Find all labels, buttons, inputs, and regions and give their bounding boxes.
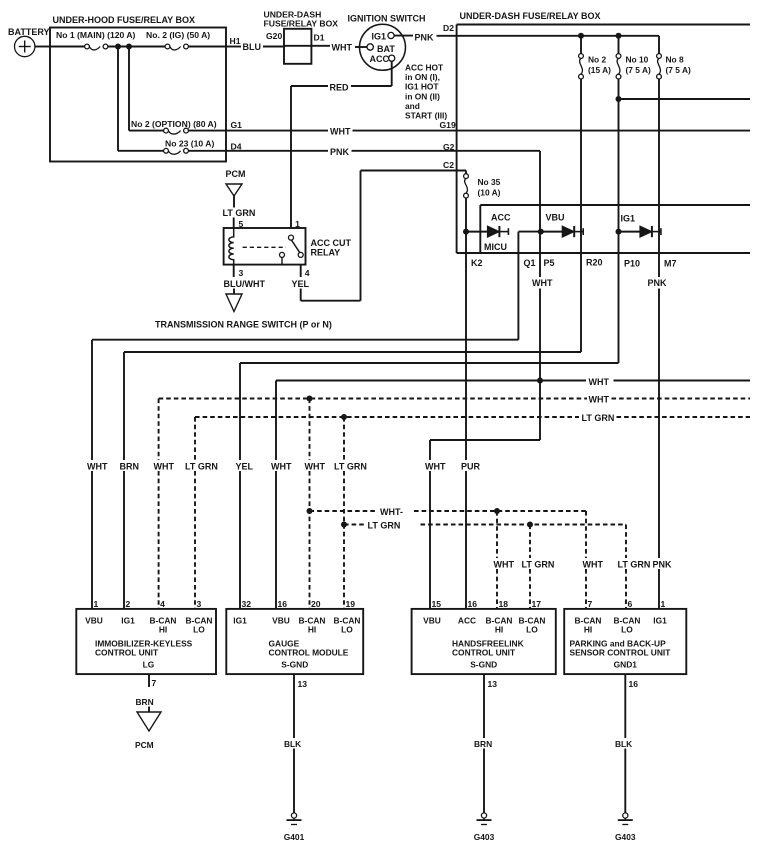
svg-text:BRN: BRN — [136, 697, 154, 707]
G19 terminal label — [440, 120, 456, 130]
relay pin 1 label — [295, 219, 300, 229]
wire park pin16 — [624, 674, 626, 813]
svg-text:CONTROL MODULE: CONTROL MODULE — [269, 648, 349, 658]
BLK label park — [615, 739, 632, 749]
fuse No 8 7.5A — [657, 54, 691, 79]
PCM label bottom — [135, 740, 154, 750]
relay pin 3 label — [239, 268, 244, 278]
svg-text:WHT: WHT — [532, 278, 553, 288]
node dot fuse No10 tap — [616, 33, 622, 39]
transmission range switch triangle — [226, 294, 242, 312]
node dot lower WHT at hfl pin18 — [494, 508, 500, 514]
wire col to immo pin2 — [123, 352, 125, 609]
dashed WHT bus lower — [310, 510, 587, 512]
svg-text:BLU/WHT: BLU/WHT — [224, 279, 266, 289]
relay contact fixed — [280, 252, 285, 264]
fuse No 23 10A — [118, 139, 214, 155]
wire BRN to PCM triangle — [148, 707, 150, 713]
svg-text:IG1: IG1 — [653, 616, 667, 626]
wire col to gauge pin16 — [275, 381, 277, 609]
WHT- label lower bus — [380, 507, 403, 517]
svg-text:4: 4 — [305, 268, 310, 278]
WHT label hfl pin15 — [425, 462, 446, 472]
hfl unit name — [452, 639, 524, 658]
dashed LTGRN bus upper — [195, 416, 750, 418]
relay pin 5 label — [239, 219, 244, 229]
wire ACC left to RED — [351, 85, 392, 87]
svg-text:PUR: PUR — [461, 462, 481, 472]
node junction dot B — [126, 44, 132, 50]
relay coil — [229, 228, 234, 265]
svg-text:IG1 HOT: IG1 HOT — [405, 82, 439, 92]
svg-text:WHT: WHT — [330, 127, 351, 137]
pin 15 number — [432, 599, 442, 609]
svg-text:G20: G20 — [266, 31, 282, 41]
relay contact pin4 — [298, 252, 303, 257]
wire gauge pin13 — [293, 674, 295, 813]
svg-text:BRN: BRN — [120, 462, 140, 472]
svg-text:16: 16 — [629, 679, 639, 689]
svg-text:IG1: IG1 — [621, 214, 636, 224]
node dot No10 branch — [616, 96, 622, 102]
svg-text:PNK: PNK — [330, 147, 350, 157]
wire K2 column — [465, 232, 467, 609]
svg-text:HI: HI — [308, 625, 316, 635]
WHT label gauge pin16 — [271, 462, 292, 472]
wire WHT to BAT terminal — [355, 46, 367, 48]
svg-text:P5: P5 — [544, 258, 555, 268]
wire fuse2 to H1 — [188, 46, 226, 48]
svg-text:ACC CUT: ACC CUT — [311, 238, 352, 248]
node dot dashed WHT at gauge pin20 — [307, 396, 313, 402]
M7 label — [664, 258, 677, 268]
wire D2 bus — [457, 35, 659, 37]
wire No10 branch right — [619, 98, 751, 100]
svg-text:1: 1 — [661, 599, 666, 609]
BRN label immo — [136, 697, 154, 707]
P5 label — [544, 258, 555, 268]
svg-text:No 35: No 35 — [478, 177, 501, 187]
ground G401 — [284, 813, 305, 842]
WHT wire label G19 row — [330, 127, 351, 137]
ignition ACC terminal — [370, 54, 395, 64]
dashed LTGRN bus lower — [344, 524, 626, 526]
wire R20 bus left — [124, 351, 581, 353]
WHT label immo pin4 — [154, 462, 175, 472]
svg-text:6: 6 — [628, 599, 633, 609]
pin 3 number — [197, 599, 202, 609]
svg-text:LT GRN: LT GRN — [582, 413, 615, 423]
wire drop to fuse No8 — [658, 36, 660, 54]
wire WHT to G19 under-dash — [353, 130, 751, 132]
relay switch arm — [291, 240, 300, 253]
svg-text:BLU: BLU — [243, 42, 262, 52]
svg-text:WHT: WHT — [154, 462, 175, 472]
svg-text:YEL: YEL — [292, 279, 310, 289]
dashed WHT bus upper — [159, 398, 750, 400]
wire between fuses — [108, 46, 165, 48]
svg-text:(7 5 A): (7 5 A) — [666, 65, 691, 75]
svg-text:RELAY: RELAY — [311, 248, 341, 258]
svg-text:No 8: No 8 — [666, 55, 684, 65]
svg-text:G19: G19 — [440, 120, 456, 130]
dashed col to immo pin4 — [158, 399, 160, 609]
svg-text:No 1 (MAIN) (120 A): No 1 (MAIN) (120 A) — [56, 30, 136, 40]
PNK label M7 col — [648, 278, 668, 288]
wire option fuse to G1 — [188, 130, 226, 132]
diode ACC — [463, 226, 508, 237]
Q1 label — [524, 258, 536, 268]
ACC diode label — [491, 212, 511, 222]
svg-text:VBU: VBU — [85, 616, 103, 626]
svg-text:M7: M7 — [664, 258, 677, 268]
relay dashed link — [243, 246, 286, 248]
svg-text:ACC: ACC — [370, 54, 390, 64]
LT GRN wire label relay — [223, 208, 256, 218]
immo pin names — [85, 616, 212, 635]
park pin names — [575, 616, 668, 635]
diode VBU — [538, 226, 583, 237]
wire col to immo pin1 — [91, 340, 93, 609]
D4 terminal label — [231, 142, 242, 152]
wire relay pin4 down — [300, 265, 302, 277]
svg-text:HI: HI — [159, 625, 167, 635]
svg-text:LO: LO — [526, 625, 538, 635]
svg-text:(10 A): (10 A) — [478, 188, 501, 198]
LT GRN label park pin6 — [618, 560, 651, 570]
svg-text:IG1: IG1 — [372, 32, 387, 42]
svg-text:Q1: Q1 — [524, 258, 536, 268]
BLU/WHT wire label — [224, 279, 266, 289]
node dot dashed LTGRN at gauge pin19 — [341, 414, 347, 420]
svg-text:LT GRN: LT GRN — [334, 462, 367, 472]
G1 terminal label — [231, 120, 243, 130]
P10 label — [624, 258, 640, 268]
svg-text:WHT: WHT — [583, 560, 604, 570]
svg-text:G401: G401 — [284, 832, 305, 842]
svg-text:LG: LG — [143, 660, 155, 670]
svg-text:WHT: WHT — [494, 560, 515, 570]
acc-hot note — [405, 63, 447, 121]
pin 16 number — [278, 599, 288, 609]
svg-text:18: 18 — [499, 599, 509, 609]
svg-text:19: 19 — [346, 599, 356, 609]
svg-text:HI: HI — [584, 625, 592, 635]
svg-text:3: 3 — [239, 268, 244, 278]
pin 13 number — [298, 679, 308, 689]
svg-text:TRANSMISSION RANGE SWITCH (P o: TRANSMISSION RANGE SWITCH (P or N) — [155, 320, 332, 330]
wire G1 to WHT label — [226, 130, 328, 132]
node dot lower LTGRN at hfl pin17 — [527, 522, 533, 528]
svg-text:16: 16 — [278, 599, 288, 609]
svg-text:S-GND: S-GND — [470, 660, 497, 670]
D1 terminal label — [314, 33, 325, 43]
under-dash fuse/relay box (open right) — [457, 25, 750, 254]
svg-text:PCM: PCM — [226, 169, 246, 179]
pin 13b number — [488, 679, 498, 689]
svg-text:WHT: WHT — [305, 462, 326, 472]
pin 1b number — [661, 599, 666, 609]
svg-text:16: 16 — [468, 599, 478, 609]
svg-text:WHT: WHT — [425, 462, 446, 472]
wire YEL path to C2 — [301, 171, 466, 301]
pin 17 number — [532, 599, 542, 609]
LT GRN label dashed bus — [582, 413, 615, 423]
pin 18 number — [499, 599, 509, 609]
PCM triangle — [226, 184, 242, 196]
svg-text:ACC: ACC — [491, 212, 511, 222]
svg-text:ACC HOT: ACC HOT — [405, 63, 444, 73]
hfl pin names — [423, 616, 545, 635]
WHT label park pin7 — [583, 560, 604, 570]
WHT label solid bus — [589, 377, 610, 387]
LT GRN label lower bus — [368, 521, 401, 531]
svg-text:G2: G2 — [443, 142, 455, 152]
wire drop from dot B — [128, 47, 130, 131]
svg-text:in ON (II): in ON (II) — [405, 91, 440, 101]
BRN label hfl — [474, 739, 492, 749]
parking back-up sensor control unit box — [564, 609, 686, 674]
pin 7b number — [152, 678, 157, 688]
wire P5 corner to hfl pin15 — [430, 440, 540, 609]
svg-text:32: 32 — [242, 599, 252, 609]
svg-text:VBU: VBU — [423, 616, 441, 626]
battery — [8, 27, 50, 57]
wire BLU/WHT to triangle — [233, 289, 235, 295]
svg-text:LT GRN: LT GRN — [522, 560, 555, 570]
ignition BAT terminal — [367, 44, 395, 54]
park unit name — [570, 639, 672, 658]
svg-text:PNK: PNK — [415, 32, 435, 42]
node dot lower LTGRN start — [341, 522, 347, 528]
svg-text:VBU: VBU — [272, 616, 290, 626]
svg-text:RED: RED — [330, 83, 350, 93]
under-dash small box title — [264, 10, 339, 29]
svg-text:MICU: MICU — [484, 242, 507, 252]
under-dash small box — [284, 29, 311, 64]
svg-text:WHT: WHT — [589, 395, 610, 405]
MICU box — [480, 205, 750, 253]
wire RED to corner — [291, 85, 328, 87]
pin 16b number — [468, 599, 478, 609]
WHT label immo pin1 — [87, 462, 108, 472]
pin 6 number — [628, 599, 633, 609]
svg-text:IGNITION SWITCH: IGNITION SWITCH — [348, 14, 426, 24]
wire IG1 to PNK label — [394, 35, 413, 37]
svg-text:WHT: WHT — [271, 462, 292, 472]
wire Q1 column — [517, 232, 519, 340]
WHT label gauge pin20 — [305, 462, 326, 472]
svg-text:15: 15 — [432, 599, 442, 609]
wire PNK to G2 corner — [352, 150, 541, 152]
svg-text:H1: H1 — [230, 36, 241, 46]
wire PCM to LT GRN — [233, 196, 235, 208]
under-hood box title — [53, 15, 196, 25]
svg-text:WHT: WHT — [589, 377, 610, 387]
relay pin 4 label — [305, 268, 310, 278]
svg-text:CONTROL UNIT: CONTROL UNIT — [95, 648, 159, 658]
WHT label P5 col — [532, 278, 553, 288]
wire through small box — [284, 45, 330, 47]
wire drop from dot A — [117, 47, 119, 151]
svg-text:LO: LO — [341, 625, 353, 635]
svg-text:4: 4 — [160, 599, 165, 609]
svg-text:GND1: GND1 — [614, 660, 638, 670]
wire relay pin3 down — [233, 265, 235, 277]
R20 label — [586, 257, 603, 267]
YEL wire label relay — [292, 279, 310, 289]
svg-text:PNK: PNK — [653, 560, 673, 570]
svg-text:P10: P10 — [624, 258, 640, 268]
ignition switch body — [348, 14, 426, 71]
park GND1 tag — [614, 660, 638, 670]
immo LG tag — [143, 660, 155, 670]
K2 label — [471, 258, 483, 268]
pin 2 number — [126, 599, 131, 609]
gauge S-GND tag — [281, 660, 308, 670]
wire no23 fuse to D4 — [188, 150, 226, 152]
dashed col to gauge pin20 — [309, 399, 311, 609]
dashed col to gauge pin19 — [343, 417, 345, 609]
diode IG1 — [616, 226, 661, 237]
pin 20 number — [311, 599, 321, 609]
PNK wire label D2 row — [415, 32, 435, 42]
svg-text:2: 2 — [126, 599, 131, 609]
BLK label gauge — [284, 739, 301, 749]
svg-text:D1: D1 — [314, 33, 325, 43]
svg-text:17: 17 — [532, 599, 542, 609]
wire P10 bus left — [240, 362, 619, 364]
svg-text:No. 2 (IG) (50 A): No. 2 (IG) (50 A) — [146, 30, 210, 40]
pin 1 number — [94, 599, 99, 609]
svg-text:IG1: IG1 — [233, 616, 247, 626]
svg-text:LT GRN: LT GRN — [618, 560, 651, 570]
WHT wire label after D1 — [332, 43, 353, 53]
under-hood fuse/relay box — [50, 28, 226, 162]
svg-text:BLK: BLK — [284, 739, 301, 749]
svg-text:in ON (I),: in ON (I), — [405, 72, 440, 82]
wire fuse No10 down (P10 col upper) — [618, 79, 620, 363]
pin 19 number — [346, 599, 356, 609]
wire WHT bus solid — [276, 380, 750, 382]
wire H1 to BLU label — [226, 46, 241, 48]
relay name — [311, 238, 352, 258]
svg-text:WHT: WHT — [87, 462, 108, 472]
fuse No 1 (MAIN) 120A — [56, 30, 136, 50]
svg-text:1: 1 — [94, 599, 99, 609]
LT GRN label gauge pin19 — [334, 462, 367, 472]
G20 terminal label — [266, 31, 282, 41]
gauge control module box — [226, 609, 363, 674]
wire Q1 bus left — [92, 339, 518, 341]
svg-text:No 10: No 10 — [626, 55, 649, 65]
wire BLU to under-dash box — [263, 46, 284, 48]
IG1 diode label — [621, 214, 636, 224]
ignition IG1 terminal — [372, 32, 395, 42]
svg-text:3: 3 — [197, 599, 202, 609]
gauge pin names — [233, 616, 360, 635]
immobilizer-keyless control unit box — [76, 609, 216, 674]
wire battery to under-hood box — [35, 46, 50, 48]
BRN label immo pin2 — [120, 462, 140, 472]
svg-text:FUSE/RELAY BOX: FUSE/RELAY BOX — [264, 19, 339, 29]
node junction dot A — [115, 44, 121, 50]
fuse No 2 15A — [579, 36, 612, 79]
svg-text:1: 1 — [295, 219, 300, 229]
svg-text:UNDER-DASH FUSE/RELAY BOX: UNDER-DASH FUSE/RELAY BOX — [460, 11, 601, 21]
G2 terminal label — [443, 142, 455, 152]
svg-text:LO: LO — [621, 625, 633, 635]
svg-text:HI: HI — [495, 625, 503, 635]
fuse No 10 7.5A — [616, 36, 651, 79]
svg-text:PCM: PCM — [135, 740, 154, 750]
svg-text:PNK: PNK — [648, 278, 668, 288]
LT GRN label immo pin3 — [185, 462, 218, 472]
svg-text:WHT-: WHT- — [380, 507, 403, 517]
wire ACC down — [391, 61, 393, 86]
svg-text:VBU: VBU — [546, 212, 565, 222]
wire LT GRN to relay pin5 — [233, 218, 235, 229]
LT GRN label hfl pin17 — [522, 560, 555, 570]
fuse No 2 (IG) 50A — [146, 30, 210, 50]
svg-text:7: 7 — [152, 678, 157, 688]
fuse No 35 10A — [464, 171, 501, 199]
wire PNK to D2 — [437, 35, 457, 37]
svg-text:BRN: BRN — [474, 739, 492, 749]
wire P5 column — [539, 151, 541, 440]
pin 4 number — [160, 599, 165, 609]
dashed col to hfl pin17 — [529, 525, 531, 609]
svg-text:BLK: BLK — [615, 739, 632, 749]
svg-text:LT GRN: LT GRN — [368, 521, 401, 531]
svg-text:C2: C2 — [443, 160, 454, 170]
svg-text:CONTROL UNIT: CONTROL UNIT — [452, 648, 516, 658]
svg-text:LT GRN: LT GRN — [185, 462, 218, 472]
acc cut relay box — [224, 228, 306, 265]
svg-text:and: and — [405, 101, 420, 111]
svg-text:13: 13 — [298, 679, 308, 689]
svg-text:K2: K2 — [471, 258, 483, 268]
svg-text:SENSOR CONTROL UNIT: SENSOR CONTROL UNIT — [570, 648, 672, 658]
PCM triangle bottom — [137, 712, 161, 731]
ground G403 b — [615, 813, 636, 842]
PNK wire label G2 row — [330, 147, 350, 157]
handsfreelink control unit box — [412, 609, 556, 674]
svg-text:G403: G403 — [474, 832, 495, 842]
svg-text:LO: LO — [193, 625, 205, 635]
wire hfl pin13 — [483, 674, 485, 813]
svg-text:G1: G1 — [231, 120, 243, 130]
node dot fuse No2 tap — [578, 33, 584, 39]
hfl S-GND tag — [470, 660, 497, 670]
relay contact pin1 — [289, 235, 294, 240]
svg-text:D2: D2 — [443, 23, 454, 33]
wire fuse No2 down (R20 col upper) — [580, 79, 582, 352]
dashed col to immo pin3 — [194, 417, 196, 609]
fuse No 2 (OPTION) 80A — [129, 119, 217, 134]
svg-text:(7 5 A): (7 5 A) — [626, 65, 651, 75]
wire RED down to relay pin1 — [290, 86, 292, 228]
svg-text:7: 7 — [588, 599, 593, 609]
svg-text:20: 20 — [311, 599, 321, 609]
dashed col to park pin6 — [625, 525, 627, 609]
H1 terminal label — [230, 36, 241, 46]
svg-text:WHT: WHT — [332, 43, 353, 53]
svg-text:UNDER-HOOD FUSE/RELAY BOX: UNDER-HOOD FUSE/RELAY BOX — [53, 15, 196, 25]
node dot lower WHT start — [307, 508, 313, 514]
under-dash box title — [460, 11, 601, 21]
wire fuse No8 down (M7 col) — [658, 79, 660, 609]
